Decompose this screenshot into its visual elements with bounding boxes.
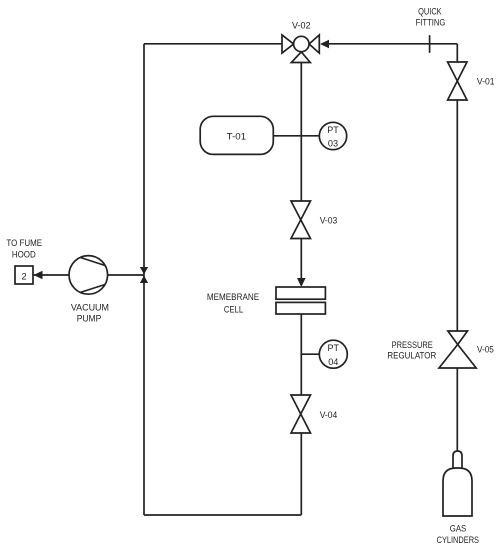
quick fitting tick	[429, 35, 431, 53]
svg-text:QUICK: QUICK	[418, 6, 442, 16]
arrow into box 2 (pointing left)	[34, 271, 43, 279]
svg-text:TO FUME: TO FUME	[6, 238, 42, 248]
wire V-03 to membrane cell	[300, 239, 302, 280]
fume hood box 2	[15, 266, 33, 284]
svg-text:HOOD: HOOD	[12, 249, 36, 259]
svg-text:MEMEBRANE: MEMEBRANE	[207, 292, 259, 302]
wire right vertical lower (V-05 to cylinder)	[456, 368, 458, 451]
svg-text:V-05: V-05	[477, 345, 494, 355]
3-way valve V-02	[282, 35, 319, 63]
svg-text:04: 04	[328, 357, 338, 367]
svg-text:CYLINDERS: CYLINDERS	[437, 535, 479, 545]
svg-text:REGULATOR: REGULATOR	[387, 351, 436, 361]
vessel T-01	[200, 116, 273, 154]
vacuum pump	[69, 256, 108, 295]
arrow into V-02 (pointing left)	[320, 40, 329, 48]
valve V-03	[291, 201, 311, 239]
svg-text:V-04: V-04	[320, 410, 338, 420]
pressure regulator V-05	[439, 331, 476, 368]
svg-text:2: 2	[21, 271, 26, 281]
gas cylinder	[443, 451, 472, 516]
gauge PT-04	[319, 340, 347, 368]
wire V-02 to right corner	[329, 43, 457, 45]
gauge PT-03	[319, 122, 346, 149]
wire V-02 down to V-03	[300, 63, 302, 202]
valve V-01	[448, 62, 467, 100]
svg-text:VACUUM: VACUUM	[71, 302, 109, 312]
wire T-01 to PT-03	[273, 135, 319, 137]
wire bottom horizontal loop	[144, 514, 301, 516]
svg-text:V-03: V-03	[320, 215, 338, 225]
svg-text:T-01: T-01	[227, 132, 246, 142]
wire PT-04 connector	[301, 353, 319, 355]
junction arrow up	[140, 276, 148, 284]
valve V-04	[291, 395, 311, 433]
wire right vertical mid (V-01 to V-05)	[456, 100, 458, 331]
svg-text:GAS: GAS	[450, 524, 467, 534]
svg-text:FITTING: FITTING	[416, 17, 446, 27]
wire membrane cell to V-04	[300, 314, 302, 395]
svg-text:03: 03	[328, 139, 338, 149]
svg-text:PT: PT	[328, 343, 340, 353]
svg-text:PT: PT	[327, 125, 339, 135]
svg-text:V-02: V-02	[292, 21, 311, 31]
wire pump line (fume hood box to junction)	[34, 274, 145, 276]
membrane cell	[276, 287, 325, 314]
svg-text:PUMP: PUMP	[77, 314, 102, 324]
wire top horizontal left loop	[144, 43, 282, 45]
wire bottom mid vertical (V-04 to loop)	[300, 433, 302, 515]
svg-text:CELL: CELL	[224, 305, 243, 315]
svg-text:PRESSURE: PRESSURE	[392, 340, 433, 350]
junction arrow down	[140, 267, 148, 275]
wire right vertical upper (corner to V-01)	[456, 44, 458, 62]
wire left vertical loop	[143, 44, 145, 515]
svg-text:V-01: V-01	[477, 77, 495, 87]
arrow into membrane cell (pointing down)	[297, 278, 306, 287]
